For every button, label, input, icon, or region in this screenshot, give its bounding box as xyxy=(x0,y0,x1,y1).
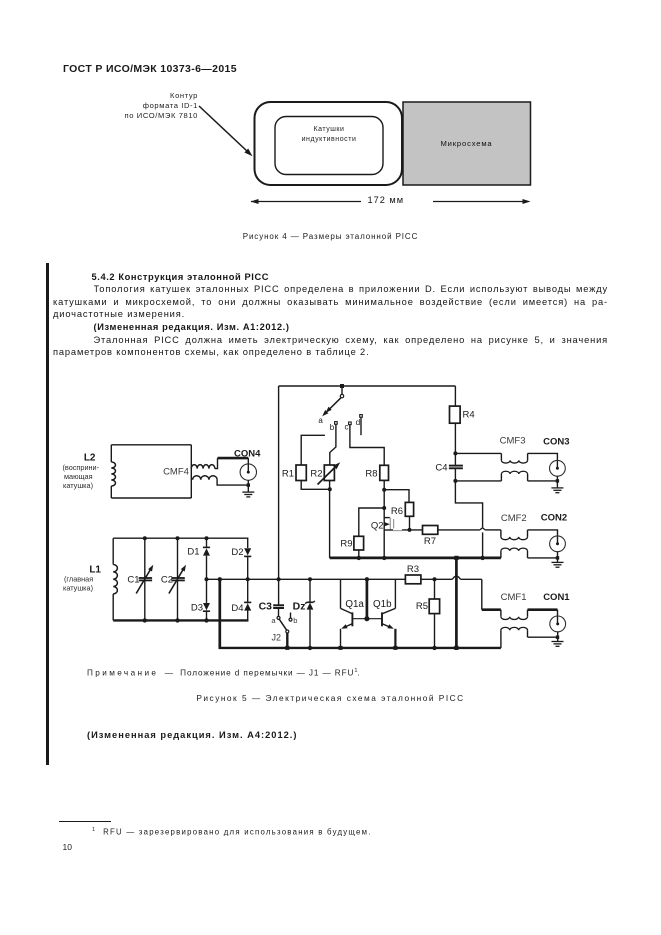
wire D2 to node xyxy=(247,556,249,604)
wire L1 bottom rail xyxy=(113,619,248,621)
resistor R5 leg xyxy=(434,579,436,599)
wire R2 bottom to ground rail xyxy=(329,481,331,558)
ground at CON3 xyxy=(551,488,563,493)
svg-text:a: a xyxy=(318,416,323,425)
change bar xyxy=(46,263,49,765)
node R6/R7 xyxy=(408,528,412,532)
resistor R4 xyxy=(450,406,461,423)
figure 4 pointer label xyxy=(58,91,198,121)
wire emitter rail xyxy=(219,647,501,649)
resistor R2 (variable) xyxy=(318,462,341,484)
coil L2 winding xyxy=(111,462,115,486)
resistor R9 xyxy=(354,536,364,550)
svg-text:C1: C1 xyxy=(127,575,139,586)
ground at CON4 xyxy=(242,492,254,497)
wire CMF2 top to CON2 xyxy=(528,530,558,544)
diode D1 leg xyxy=(205,536,209,547)
svg-text:C3: C3 xyxy=(259,600,273,612)
wire left tall vertical xyxy=(278,386,280,605)
wire CMF1 bottom to CON1 ground xyxy=(528,632,560,641)
transistor Q2 xyxy=(384,518,402,531)
wire CMF1 top to CON1 xyxy=(528,610,558,624)
svg-text:b: b xyxy=(293,616,297,625)
svg-text:Dz: Dz xyxy=(293,600,306,612)
transistor Q1b xyxy=(382,608,395,628)
CMF1 top winding xyxy=(501,617,528,620)
wire base link xyxy=(352,618,382,620)
svg-text:C2: C2 xyxy=(161,575,173,586)
wire D1 to node xyxy=(206,556,208,603)
svg-text:CON2: CON2 xyxy=(541,513,567,524)
wire CMF4 to CON4 ground xyxy=(217,480,250,492)
wire contact c to R8 xyxy=(350,425,384,466)
resistor R6 xyxy=(405,502,413,516)
svg-text:(главная: (главная xyxy=(64,575,93,584)
zener diode Dz leg xyxy=(308,579,312,650)
svg-text:R1: R1 xyxy=(282,469,294,480)
figure4 dimension arrow 172 mm xyxy=(251,199,531,204)
figure 4 caption xyxy=(0,232,661,241)
capacitor C3 xyxy=(273,605,284,608)
svg-text:J2: J2 xyxy=(271,633,281,643)
wire CMF3 top xyxy=(455,453,501,460)
node top rail / J1 xyxy=(340,384,344,388)
page number xyxy=(63,842,72,852)
CMF1 bottom winding xyxy=(501,627,528,648)
wire CMF3 bottom to CON3 ground xyxy=(528,474,560,488)
svg-text:D3: D3 xyxy=(191,603,203,614)
node R1/R2 bottom xyxy=(328,487,332,491)
svg-text:R2: R2 xyxy=(310,469,322,480)
diode D1 xyxy=(203,547,210,555)
wire CMF4 to CON4 hot xyxy=(215,458,249,472)
svg-text:b: b xyxy=(330,423,335,432)
coil L1 winding xyxy=(113,565,117,594)
CMF2 bottom winding xyxy=(501,548,528,558)
footnote xyxy=(92,827,372,837)
zener diode Dz xyxy=(305,601,315,610)
capacitor C4 xyxy=(449,466,463,469)
svg-text:C4: C4 xyxy=(435,463,447,474)
wire thick drop from bridge net xyxy=(218,579,221,648)
svg-text:(восприни-: (восприни- xyxy=(63,463,100,472)
contact b of J1 xyxy=(335,422,338,425)
figure 5 caption xyxy=(0,693,661,703)
jumper J2 contact b xyxy=(289,613,292,622)
wire ground rail xyxy=(330,556,501,560)
footnote rule xyxy=(59,821,111,822)
transistor Q1a xyxy=(341,608,353,628)
CMF3 top winding xyxy=(501,460,527,463)
svg-text:CON4: CON4 xyxy=(234,449,261,460)
svg-text:d: d xyxy=(356,418,360,427)
resistor R3 xyxy=(405,575,421,584)
wire CMF3 top to CON3 xyxy=(528,453,558,468)
figure4 coil area xyxy=(275,117,383,175)
connector CON3 xyxy=(550,460,566,476)
svg-text:катушка): катушка) xyxy=(63,584,93,593)
wire D4 to bottom rail corner xyxy=(247,611,250,621)
wire Q1a emitter xyxy=(339,629,343,650)
wire R7 to CMF2 xyxy=(438,528,501,530)
svg-text:L2: L2 xyxy=(84,453,96,464)
resistor R1 xyxy=(296,465,306,481)
capacitor C1 (variable) xyxy=(136,536,153,622)
connector CON1 xyxy=(550,616,566,632)
transistor pair base feed xyxy=(364,579,369,621)
resistor R8 xyxy=(380,465,389,480)
diode D2 xyxy=(244,548,251,556)
wire node to R9 xyxy=(359,508,384,536)
wire stub at contact d xyxy=(360,417,362,435)
svg-text:R6: R6 xyxy=(391,506,403,517)
contact c of J1 xyxy=(349,422,352,425)
wire top rail to R4 xyxy=(454,386,456,406)
wire R8 node to R6 xyxy=(384,490,409,503)
svg-text:c: c xyxy=(345,423,349,432)
svg-text:мающая: мающая xyxy=(64,472,93,481)
svg-text:D1: D1 xyxy=(187,547,199,558)
figure 4 card inner text xyxy=(275,125,383,145)
wire contact a to R1 xyxy=(301,435,325,465)
contact d of J1 xyxy=(360,415,363,418)
svg-text:D2: D2 xyxy=(231,547,243,558)
svg-text:Q2: Q2 xyxy=(371,521,384,532)
svg-text:R4: R4 xyxy=(463,410,475,421)
svg-text:CMF3: CMF3 xyxy=(500,436,526,447)
wire R5 bottom xyxy=(432,614,436,651)
wire D3 to bottom rail xyxy=(204,610,208,622)
diode D2 leg xyxy=(247,538,249,548)
figure4 card outline xyxy=(255,102,403,185)
diode D3 xyxy=(203,603,210,611)
wire Q1a collector xyxy=(340,579,342,608)
node gate feed xyxy=(382,506,386,510)
CMF2 top winding xyxy=(501,530,528,540)
wire C4 net to ground rail xyxy=(455,481,482,558)
connector CON4 xyxy=(240,464,256,480)
coil L2 (sense coil) block xyxy=(111,445,191,498)
wire contact b to R2 xyxy=(330,424,336,465)
jumper J1 arm to contact a xyxy=(322,398,341,416)
wire CMF3 bottom xyxy=(455,474,501,481)
wire bridge output net xyxy=(205,576,482,581)
wire Q1b collector xyxy=(394,579,396,608)
CMF4 top winding xyxy=(191,465,215,469)
jumper J1 pivot xyxy=(340,386,343,398)
svg-text:CON3: CON3 xyxy=(543,437,569,448)
svg-text:R9: R9 xyxy=(340,539,352,550)
ground at CON2 xyxy=(552,562,564,567)
svg-text:Q1a: Q1a xyxy=(345,599,364,610)
common-mode filter CMF4 right edge xyxy=(190,445,192,498)
svg-text:R8: R8 xyxy=(365,469,377,480)
coil L1 (main coil) block xyxy=(113,538,248,620)
svg-text:D4: D4 xyxy=(231,603,243,614)
header xyxy=(63,63,237,75)
figure4 pointer arrow xyxy=(199,106,253,156)
capacitor C2 (variable) xyxy=(169,536,186,622)
svg-text:R3: R3 xyxy=(407,564,419,575)
wire Q2 drain to R7 xyxy=(402,529,423,531)
svg-text:CMF4: CMF4 xyxy=(163,467,189,478)
svg-text:R5: R5 xyxy=(416,601,428,612)
wire CMF2 bottom to CON2 ground xyxy=(528,552,560,562)
svg-text:R7: R7 xyxy=(424,536,436,547)
wire R4 to C4 node xyxy=(453,423,457,465)
figure 4 chip text xyxy=(403,139,530,148)
wire R1 bottom to node xyxy=(301,481,330,490)
jumper J2 arm xyxy=(279,619,289,650)
diode D4 xyxy=(244,602,251,610)
CMF3 bottom winding xyxy=(501,471,527,474)
wire R6 bottom xyxy=(409,516,411,530)
dimension text xyxy=(368,195,405,205)
CMF4 bottom winding xyxy=(193,476,218,480)
note under figure 5 xyxy=(87,668,360,678)
svg-text:катушка): катушка) xyxy=(63,481,93,490)
wire top rail xyxy=(279,385,456,387)
svg-text:CON1: CON1 xyxy=(543,592,570,603)
resistor R7 xyxy=(423,526,438,535)
svg-text:Q1b: Q1b xyxy=(373,599,392,610)
amended note xyxy=(87,730,297,740)
wire common ground drop xyxy=(454,558,458,650)
wire net to CMF1 top xyxy=(482,579,501,616)
connector CON2 xyxy=(550,536,566,552)
svg-text:CMF2: CMF2 xyxy=(501,513,527,524)
svg-text:a: a xyxy=(271,616,276,625)
jumper J2 contact a xyxy=(277,608,280,619)
wire Q1b emitter xyxy=(393,629,397,650)
ground at CON1 xyxy=(552,642,564,647)
wire R8 bottom node xyxy=(382,480,386,558)
svg-text:CMF1: CMF1 xyxy=(501,592,527,603)
wire C4 bottom node xyxy=(453,468,457,483)
figure4 chip block xyxy=(403,102,531,185)
resistor R5 xyxy=(429,599,439,614)
wire R9 bottom to rail xyxy=(358,550,360,558)
section 5.4.2 xyxy=(92,272,270,282)
